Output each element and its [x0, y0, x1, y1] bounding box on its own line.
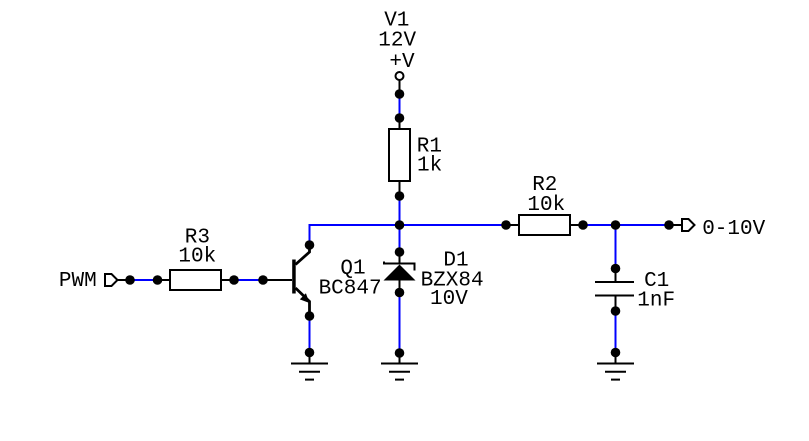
- junction dot (Q1 collector pin): [305, 240, 315, 250]
- label +V net name: [389, 51, 415, 74]
- label D1 value BZX84: [421, 270, 484, 293]
- junction dot (R3 left pin): [153, 275, 163, 285]
- label 0-10V net name: [702, 218, 765, 241]
- label PWM net name: [59, 270, 97, 293]
- ground under D1: [381, 353, 418, 380]
- junction dot (C1 top pin): [611, 264, 621, 274]
- junction dot (Q1 ground node): [305, 348, 315, 358]
- resistor R2 (horizontal box with pins): [506, 215, 583, 235]
- junction dot (C1 bottom pin): [611, 306, 621, 316]
- junction dot (R2 left pin): [501, 220, 511, 230]
- zener diode D1 BZX84: [384, 252, 416, 293]
- junction dot (C1 ground node): [611, 348, 621, 358]
- junction dot (R3 right pin): [229, 275, 239, 285]
- label C1 reference: [644, 270, 669, 293]
- junction dot (Q1 emitter pin): [305, 311, 315, 321]
- junction dot (R1 top pin): [395, 113, 405, 123]
- svg-text:12V: 12V: [378, 30, 416, 53]
- transistor Q1 BC847 (NPN): [263, 245, 310, 316]
- wire: R3 right pin to Q1 base pin: [234, 279, 263, 281]
- wire: main horizontal net from Q1 collector to output (y=225): [310, 225, 670, 245]
- port 0-10V (output terminal pentagon): [669, 219, 695, 231]
- junction dot (D1 cathode pin): [395, 288, 405, 298]
- junction dot (D1 ground node): [395, 348, 405, 358]
- label R2 value 10k: [527, 194, 565, 217]
- label R2 reference: [532, 174, 557, 197]
- junction dot (Q1 base pin): [258, 275, 268, 285]
- label R3 value 10k: [178, 246, 216, 269]
- power symbol V1 +V (open circle terminal): [396, 72, 404, 94]
- wire: R1 bottom pin to center rail: [399, 196, 401, 225]
- wire: Q1 emitter pin to ground node: [309, 316, 311, 353]
- label V1 reference: [384, 10, 409, 33]
- junction dot (C1 branch node): [611, 220, 621, 230]
- label R1 reference: [417, 136, 442, 159]
- label V1 value 12V: [378, 30, 416, 53]
- capacitor C1 (two plates with pins): [595, 269, 634, 312]
- svg-text:+V: +V: [389, 51, 415, 74]
- junction dot (+V top): [395, 89, 405, 99]
- ground under C1: [597, 353, 634, 380]
- svg-text:10V: 10V: [430, 288, 468, 311]
- svg-text:10k: 10k: [178, 246, 216, 269]
- svg-text:1k: 1k: [417, 155, 442, 178]
- svg-text:1nF: 1nF: [637, 290, 675, 313]
- label R3 reference: [185, 227, 210, 250]
- port PWM (input terminal pentagon): [105, 274, 130, 286]
- resistor R1 (vertical box with pins): [389, 118, 410, 196]
- svg-text:0-10V: 0-10V: [702, 218, 765, 241]
- junction dot (R1 bottom pin): [395, 191, 405, 201]
- svg-text:PWM: PWM: [59, 270, 97, 293]
- junction dot (output port pin): [664, 220, 674, 230]
- label C1 value 1nF: [637, 290, 675, 313]
- label Q1 reference: [340, 258, 365, 281]
- junction dot (PWM port pin): [125, 275, 135, 285]
- label D1 voltage 10V: [430, 288, 468, 311]
- wire: center rail to D1 anode pin: [399, 225, 401, 252]
- wire: D1 cathode pin to ground node: [399, 293, 401, 354]
- wire: +V pin to R1 top pin (vertical, x=399.5): [399, 94, 401, 118]
- wire: output node down to C1 top pin: [615, 225, 617, 269]
- junction dot (center rail crossing): [395, 220, 405, 230]
- wire: PWM port to R3 left pin: [130, 279, 158, 281]
- ground under Q1 emitter: [291, 353, 328, 380]
- junction dot (D1 anode pin): [395, 247, 405, 257]
- label D1 reference: [443, 250, 468, 273]
- svg-text:BC847: BC847: [319, 278, 382, 301]
- label R1 value 1k: [417, 155, 442, 178]
- wire: C1 bottom pin to ground node: [615, 311, 617, 353]
- svg-text:10k: 10k: [527, 194, 565, 217]
- label Q1 value BC847: [319, 278, 382, 301]
- resistor R3 (horizontal box with pins): [158, 270, 235, 290]
- junction dot (R2 right pin): [578, 220, 588, 230]
